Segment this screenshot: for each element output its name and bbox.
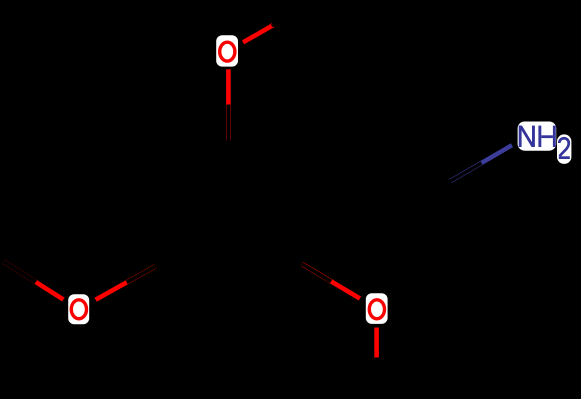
benzene ring (black skeleton, invisible on black) (153, 141, 303, 311)
atom O bottom-left (red O glyph) (71, 300, 86, 319)
atom N glyph (blue) (519, 126, 535, 147)
bond O(bottom-right)-CH3 (red half toward O) (374, 328, 379, 398)
label patch NH (518, 122, 557, 151)
bond C-N (blue half toward N) (451, 145, 513, 181)
atom O top (red O glyph) (220, 42, 235, 61)
bond O(bottom-right)-ring (red half toward O) (302, 264, 360, 299)
atom O bottom-right (red O glyph) (369, 300, 384, 319)
wire: chain bond CH2a-CH2b (373, 137, 450, 182)
wire: chain bond ring-CH2a (296, 137, 373, 182)
bond O(bottom-left)-ring (red half toward O) (96, 267, 155, 300)
bond O(top)-ring (red half toward O) (226, 69, 231, 140)
label patch O top (216, 35, 238, 66)
subscript 2 glyph (blue) (559, 138, 570, 159)
bond O(bottom-left)-CH3 (red half toward O) (4, 262, 64, 300)
bond O(top)-CH3 (red half toward O) (243, 8, 304, 43)
label patch O bottom-right (366, 293, 388, 324)
label patch subscript 2 (557, 134, 571, 164)
atom H glyph (blue) (538, 126, 555, 147)
label patch O bottom-left (68, 294, 89, 324)
